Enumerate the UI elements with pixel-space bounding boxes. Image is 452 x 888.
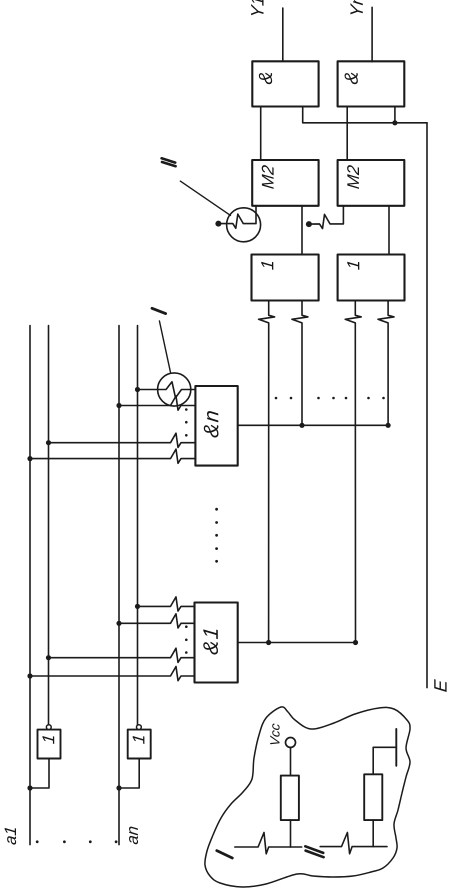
wire &n input B (from bus 3, fuse) — [119, 396, 195, 410]
inverter DD3.2 (1) — [338, 255, 405, 301]
label 1 of DD3.2 — [347, 262, 359, 270]
ellipsis dots between &1 inputs — [185, 625, 188, 653]
junction bus4 / &n input A — [135, 387, 140, 392]
junction bus1 / &n input D — [27, 456, 32, 461]
label 1 of DD1 — [43, 736, 55, 744]
label &n — [204, 411, 219, 437]
label II in blob — [305, 846, 323, 857]
inverter DD1 (1) for a1 — [38, 730, 61, 759]
junction a1 line / DD1 input — [27, 785, 32, 790]
terminal dot of DD4.2 link — [306, 221, 312, 227]
wire enable line E — [426, 123, 428, 688]
wire &1 input B (from bus 3, fuse) — [119, 614, 195, 628]
and-gate DD5.2 (&, output Yn) — [338, 61, 405, 106]
leader line from label II to circle — [180, 181, 230, 215]
resistor R1 (pull-up of link I) — [281, 776, 299, 821]
and-gate DD5.1 (&, output Y1) — [252, 61, 318, 106]
xor-gate DD4.2 (M2) — [338, 160, 405, 206]
wire DD4.2 lower input from inverter 1 — [388, 206, 390, 255]
ellipsis dots between &n inputs — [185, 408, 188, 436]
wire DD5.2 left input to M2 — [346, 107, 348, 161]
and-gate &n — [195, 386, 237, 466]
inverter DD2 (1) for an — [128, 730, 151, 759]
wire R2 bottom to fuse line — [372, 820, 374, 847]
terminal dot of link II — [215, 221, 221, 227]
wire &n input C (from bus 2, fuse) — [49, 433, 196, 447]
junction E branch / DD5.2 input — [392, 120, 397, 125]
junction &n line / column 4 — [386, 423, 391, 428]
junction &1 line / column 3 — [353, 640, 358, 645]
junction an line / DD2 input — [116, 785, 121, 790]
junction &1 line / column 1 — [266, 640, 271, 645]
xor-gate DD4.1 (M2) — [252, 160, 318, 206]
label I (roman numeral) — [152, 308, 166, 313]
wire R1 to fuse line — [290, 820, 292, 847]
wire &n input D (from bus 1, fuse) — [30, 449, 195, 463]
label 1 of DD2 — [133, 736, 145, 744]
resistor R2 (of link II) — [364, 774, 382, 820]
leader line from label I to circle — [159, 321, 170, 373]
label M2 of DD4.2 — [347, 165, 359, 189]
junction &n line / column 2 — [299, 423, 304, 428]
ellipsis dots between columns — [275, 397, 385, 400]
wire column 2 (DD3.1 right, fuse, to OR line of &n) — [292, 301, 308, 426]
wire bus 4 (inverted an line) — [137, 326, 139, 725]
wire DD2 input from an line — [119, 759, 139, 789]
wire DD4.1 lower input from inverter 1 — [301, 206, 303, 255]
wire fuse II detail — [320, 833, 387, 854]
inversion bubble of DD1 — [46, 725, 51, 730]
wire &1 input A (from bus 4, fuse) — [138, 597, 195, 611]
junction bus3 / &1 input B — [116, 621, 121, 626]
node an — [129, 827, 138, 845]
wire DD5.1 left input to M2 — [260, 107, 262, 161]
wire fuse I detail — [235, 833, 302, 854]
wire Vcc to resistor R1 — [290, 747, 292, 775]
wire DD5.2 right input to E branch — [394, 107, 396, 123]
junction bus4 / &1 input A — [135, 604, 140, 609]
inversion bubble of DD2 — [137, 725, 142, 730]
wire &n output line — [238, 424, 388, 426]
node Y1 — [251, 0, 263, 15]
electrode bar of link II — [395, 729, 397, 766]
wire DD5.1 right input down to E branch — [303, 107, 427, 123]
and-gate &1 — [195, 603, 238, 683]
wire R2 top to electrode — [373, 747, 396, 774]
label M2 of DD4.1 — [262, 165, 274, 189]
wire link II of DD4.1 (fuse to floating dot) — [218, 206, 256, 229]
wire &n input A (from bus 4 through circled fuse I) — [138, 382, 196, 398]
label & of DD5.2 — [345, 73, 358, 85]
label &1 — [203, 629, 218, 654]
terminal circle Vcc — [286, 738, 296, 748]
wire column 3 (DD3.2 left, fuse, to OR line of &1) — [345, 301, 361, 643]
ellipsis dots between a1 and an — [36, 840, 118, 843]
junction bus2 / &n input C — [46, 440, 51, 445]
label & of DD5.1 — [259, 73, 272, 85]
wire &1 output line — [238, 642, 356, 644]
label 1 of DD3.1 — [261, 262, 273, 270]
detail blob outline — [205, 707, 410, 887]
label II (roman numeral) — [162, 158, 176, 166]
wire bus 3 (input an line) — [118, 326, 120, 845]
wire bus 1 (input a1 line) — [29, 326, 31, 845]
wire column 4 (DD3.2 right, fuse, to OR line of &n) — [378, 301, 394, 426]
callout circle around link II — [227, 208, 261, 242]
junction bus1 / &1 input D — [27, 673, 32, 678]
wire column 1 (DD3.1 left, fuse, to OR line of &1) — [259, 301, 275, 643]
vertical ellipsis between &n and &1 — [215, 508, 218, 563]
node a1 — [5, 828, 17, 845]
junction bus2 / &1 input C — [46, 655, 51, 660]
node Yn — [350, 0, 362, 14]
node E — [434, 679, 446, 692]
inverter DD3.1 (1) — [252, 255, 319, 301]
wire Yn output lead — [371, 7, 373, 61]
wire bus 2 (inverted a1 line) — [48, 326, 50, 725]
wire &1 input C (from bus 2, fuse) — [49, 648, 195, 662]
wire link II of DD4.2 (fuse to floating dot) — [309, 206, 344, 229]
wire DD1 input from a1 line — [30, 759, 49, 789]
callout circle around fuse I — [158, 373, 191, 406]
junction bus3 / &n input B — [116, 403, 121, 408]
wire &1 input D (from bus 1, fuse) — [30, 667, 195, 681]
label I in blob — [217, 851, 233, 858]
wire Y1 output lead — [282, 8, 284, 61]
node Vcc — [270, 724, 279, 745]
